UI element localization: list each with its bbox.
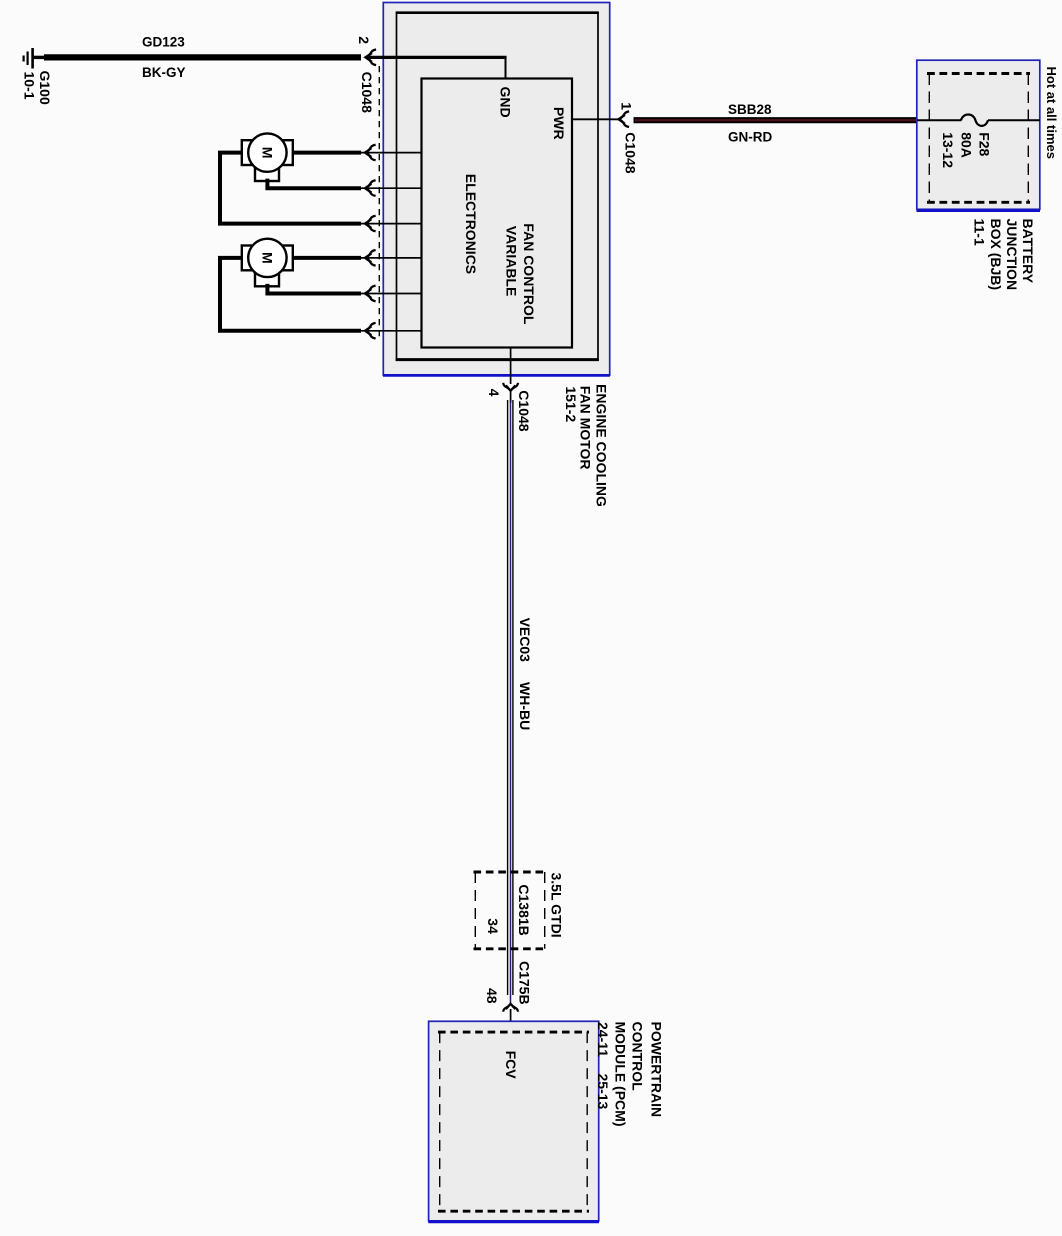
pin 2 C1048: [366, 50, 377, 66]
wire into PCM: [510, 1009, 512, 1033]
motor M2 pin a: [365, 250, 376, 266]
motor M1 pin a: [365, 145, 376, 161]
inner black rect: [396, 12, 599, 361]
svg-text:ENGINE COOLING: ENGINE COOLING: [593, 384, 609, 507]
motor M2: [242, 246, 293, 271]
svg-text:C1048: C1048: [623, 132, 639, 173]
motor M1 pin c: [365, 216, 376, 232]
svg-text:M: M: [259, 252, 275, 264]
svg-text:BK-GY: BK-GY: [142, 65, 186, 80]
wire through fuse: [917, 119, 962, 121]
connector C1048 dashed line: [378, 66, 380, 341]
svg-text:4: 4: [486, 389, 502, 397]
svg-text:FCV: FCV: [503, 1051, 519, 1080]
motor M1: [242, 140, 293, 165]
svg-text:F28: F28: [977, 132, 993, 156]
svg-text:CONTROL: CONTROL: [629, 1022, 645, 1092]
pin 1 C1048: [619, 111, 630, 127]
motor M1 wires: [220, 153, 361, 224]
svg-text:151-2: 151-2: [563, 386, 579, 422]
wire electronics to pin 4: [510, 348, 512, 385]
powertrain control module box: [429, 1021, 599, 1221]
motor M2 pin leads: [358, 258, 422, 331]
svg-text:13-12: 13-12: [940, 132, 956, 168]
svg-text:ELECTRONICS: ELECTRONICS: [463, 174, 479, 274]
svg-text:SBB28: SBB28: [728, 102, 772, 117]
motor M2 pin c: [365, 323, 376, 339]
variable fan control electronics box: [422, 79, 573, 348]
battery junction box (BJB): [917, 60, 1040, 209]
svg-text:3.5L GTDI: 3.5L GTDI: [549, 873, 565, 938]
wire SBB28 GN-RD: [634, 117, 918, 123]
svg-text:MODULE (PCM): MODULE (PCM): [612, 1022, 628, 1127]
svg-text:C1381B: C1381B: [516, 884, 532, 935]
svg-text:JUNCTION: JUNCTION: [1004, 219, 1020, 291]
svg-text:GND: GND: [498, 87, 514, 118]
svg-text:2: 2: [356, 36, 372, 44]
motor M1 pin leads: [358, 153, 422, 224]
motor M1 pin b: [365, 180, 376, 196]
svg-text:11-1: 11-1: [972, 219, 988, 246]
svg-text:G100: G100: [37, 71, 53, 105]
svg-text:BOX (BJB): BOX (BJB): [988, 219, 1004, 291]
svg-text:BATTERY: BATTERY: [1020, 219, 1036, 284]
svg-text:Hot at all times: Hot at all times: [1044, 67, 1059, 159]
pin 4 C1048: [503, 383, 518, 391]
engine cooling fan motor box: [383, 3, 609, 376]
pin 48 C175B: [503, 1004, 518, 1012]
svg-text:GD123: GD123: [142, 35, 185, 50]
BJB dashed fuse box: [927, 74, 1030, 203]
svg-text:24-11: 24-11: [595, 1022, 611, 1057]
svg-text:WH-BU: WH-BU: [517, 682, 533, 730]
connector C1381B dashed box: [474, 872, 547, 949]
svg-text:VEC03: VEC03: [517, 618, 533, 663]
motor M2 wires: [220, 258, 361, 331]
svg-text:1: 1: [618, 102, 634, 110]
svg-text:C1048: C1048: [516, 390, 532, 431]
svg-text:C1048: C1048: [359, 72, 375, 113]
svg-text:C175B: C175B: [517, 961, 533, 1005]
svg-text:25-13: 25-13: [595, 1074, 611, 1110]
svg-text:M: M: [259, 147, 275, 159]
svg-text:PWR: PWR: [551, 107, 567, 140]
svg-text:VARIABLE: VARIABLE: [504, 226, 520, 297]
svg-text:FAN MOTOR: FAN MOTOR: [578, 386, 594, 470]
twisted pair wire VEC03: [510, 391, 512, 403]
fuse F28 80A: [961, 115, 988, 126]
motor M2 pin b: [365, 286, 376, 302]
wire GND into electronics: [366, 56, 507, 59]
ground G100: [24, 48, 46, 69]
PCM dashed inner box: [438, 1032, 589, 1211]
svg-text:10-1: 10-1: [22, 72, 38, 100]
svg-text:34: 34: [485, 918, 501, 934]
svg-text:48: 48: [484, 988, 500, 1004]
wire GD123 BK-GY (thick ground wire): [44, 54, 361, 60]
svg-text:FAN CONTROL: FAN CONTROL: [521, 223, 537, 325]
svg-text:POWERTRAIN: POWERTRAIN: [649, 1022, 665, 1118]
svg-text:80A: 80A: [958, 132, 974, 158]
wire PWR to pin 1: [572, 118, 618, 120]
svg-text:GN-RD: GN-RD: [728, 130, 772, 145]
